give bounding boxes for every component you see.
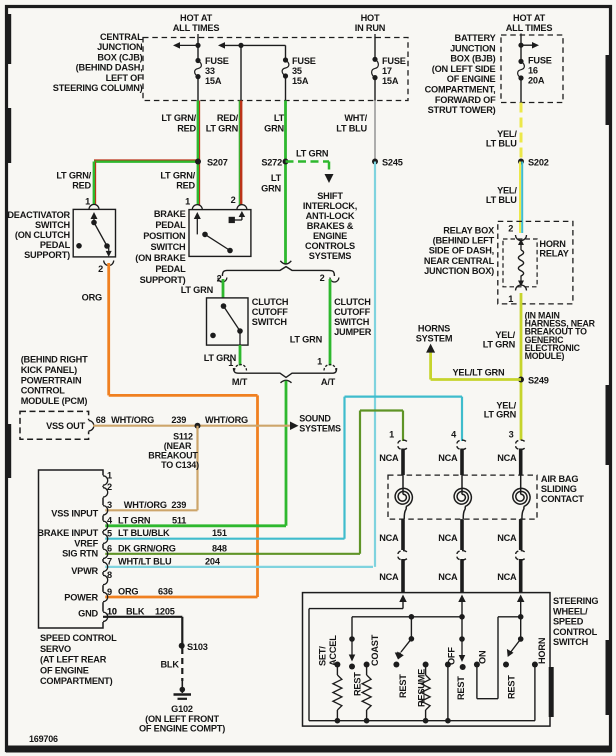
svg-text:RED: RED bbox=[176, 181, 195, 191]
svg-text:MODULE): MODULE) bbox=[525, 351, 565, 361]
svg-text:3: 3 bbox=[107, 500, 112, 510]
svg-text:SIDE OF DASH,: SIDE OF DASH, bbox=[429, 246, 494, 256]
svg-text:BATTERY: BATTERY bbox=[455, 33, 496, 43]
svg-text:2: 2 bbox=[320, 273, 325, 283]
svg-text:(ON LEFT SIDE: (ON LEFT SIDE bbox=[432, 64, 496, 74]
svg-text:STEERING COLUMN): STEERING COLUMN) bbox=[53, 83, 143, 93]
svg-text:NCA: NCA bbox=[438, 533, 458, 543]
svg-text:7: 7 bbox=[107, 557, 112, 567]
svg-text:LEFT OF: LEFT OF bbox=[106, 73, 143, 83]
svg-text:AIR BAG: AIR BAG bbox=[541, 474, 578, 484]
svg-text:17: 17 bbox=[382, 66, 392, 76]
svg-text:A/T: A/T bbox=[321, 377, 336, 387]
svg-text:2: 2 bbox=[508, 224, 513, 234]
svg-text:POSITION: POSITION bbox=[143, 231, 186, 241]
svg-text:WHT/ORG: WHT/ORG bbox=[111, 415, 154, 425]
svg-text:LT GRN/: LT GRN/ bbox=[161, 113, 196, 123]
svg-text:HORN: HORN bbox=[539, 239, 566, 249]
svg-text:16: 16 bbox=[528, 66, 538, 76]
svg-text:BOX (BJB): BOX (BJB) bbox=[450, 54, 495, 64]
svg-text:(AT LEFT REAR: (AT LEFT REAR bbox=[40, 655, 107, 665]
svg-text:(BEHIND DASH,: (BEHIND DASH, bbox=[76, 63, 143, 73]
svg-text:BRAKE: BRAKE bbox=[154, 209, 186, 219]
svg-text:CONTROLS: CONTROLS bbox=[305, 241, 355, 251]
svg-text:RELAY: RELAY bbox=[539, 249, 568, 259]
svg-text:FUSE: FUSE bbox=[205, 56, 229, 66]
svg-text:HOT: HOT bbox=[361, 13, 380, 23]
svg-text:GND: GND bbox=[78, 609, 98, 619]
svg-text:JUNCTION BOX): JUNCTION BOX) bbox=[424, 266, 494, 276]
svg-text:2: 2 bbox=[107, 482, 112, 492]
svg-text:(NEAR: (NEAR bbox=[164, 441, 192, 451]
svg-text:NCA: NCA bbox=[379, 453, 399, 463]
svg-text:15A: 15A bbox=[382, 76, 399, 86]
svg-text:SWITCH: SWITCH bbox=[150, 242, 186, 252]
svg-text:33: 33 bbox=[205, 66, 215, 76]
svg-text:10: 10 bbox=[107, 606, 117, 616]
svg-text:OF ENGINE COMPT): OF ENGINE COMPT) bbox=[139, 724, 225, 734]
svg-text:2: 2 bbox=[231, 195, 236, 205]
svg-text:LT GRN/: LT GRN/ bbox=[160, 171, 195, 181]
svg-text:REST: REST bbox=[352, 672, 362, 696]
svg-text:OF ENGINE: OF ENGINE bbox=[40, 665, 89, 675]
svg-text:CUTOFF: CUTOFF bbox=[252, 307, 288, 317]
svg-text:S103: S103 bbox=[187, 642, 208, 652]
svg-text:CENTRAL: CENTRAL bbox=[100, 32, 143, 42]
svg-text:BOX (CJB): BOX (CJB) bbox=[97, 52, 142, 62]
svg-text:RED: RED bbox=[72, 181, 91, 191]
svg-text:YEL/: YEL/ bbox=[497, 129, 517, 139]
svg-text:JUNCTION: JUNCTION bbox=[450, 43, 496, 53]
svg-text:CONTROL: CONTROL bbox=[553, 627, 598, 637]
svg-text:ALL TIMES: ALL TIMES bbox=[506, 23, 553, 33]
svg-text:SET/: SET/ bbox=[317, 646, 327, 666]
svg-text:848: 848 bbox=[212, 543, 227, 553]
svg-text:WHT/ORG: WHT/ORG bbox=[205, 415, 248, 425]
svg-text:DK GRN/ORG: DK GRN/ORG bbox=[118, 543, 176, 553]
svg-text:SWITCH: SWITCH bbox=[35, 220, 71, 230]
svg-text:SIG RTN: SIG RTN bbox=[62, 549, 98, 559]
svg-text:1: 1 bbox=[185, 197, 190, 207]
svg-text:LT GRN: LT GRN bbox=[483, 340, 516, 350]
svg-text:LT GRN: LT GRN bbox=[290, 335, 323, 345]
svg-text:DEACTIVATOR: DEACTIVATOR bbox=[7, 210, 70, 220]
svg-text:SWITCH: SWITCH bbox=[334, 317, 370, 327]
svg-text:S245: S245 bbox=[382, 158, 403, 168]
svg-text:239: 239 bbox=[171, 500, 186, 510]
svg-text:S249: S249 bbox=[528, 376, 549, 386]
svg-text:M/T: M/T bbox=[232, 377, 248, 387]
svg-text:SYSTEMS: SYSTEMS bbox=[299, 424, 341, 434]
svg-text:LT GRN: LT GRN bbox=[181, 285, 214, 295]
svg-text:POWER: POWER bbox=[64, 593, 98, 603]
svg-text:FUSE: FUSE bbox=[382, 56, 406, 66]
svg-text:YEL/LT GRN: YEL/LT GRN bbox=[453, 368, 505, 378]
svg-text:RED: RED bbox=[177, 124, 196, 134]
svg-text:(ON LEFT FRONT: (ON LEFT FRONT bbox=[145, 714, 219, 724]
svg-text:NCA: NCA bbox=[379, 533, 399, 543]
svg-text:NCA: NCA bbox=[497, 533, 517, 543]
svg-text:YEL/: YEL/ bbox=[497, 186, 517, 196]
svg-text:CUTOFF: CUTOFF bbox=[334, 307, 370, 317]
svg-text:(ON CLUTCH: (ON CLUTCH bbox=[15, 230, 71, 240]
svg-text:WHT/LT BLU: WHT/LT BLU bbox=[118, 556, 172, 566]
svg-text:20A: 20A bbox=[528, 76, 545, 86]
svg-text:YEL/: YEL/ bbox=[495, 330, 515, 340]
svg-text:IN RUN: IN RUN bbox=[355, 23, 386, 33]
svg-text:SWITCH: SWITCH bbox=[252, 317, 288, 327]
svg-text:636: 636 bbox=[158, 587, 173, 597]
svg-text:HOT AT: HOT AT bbox=[180, 13, 213, 23]
svg-text:9: 9 bbox=[107, 587, 112, 597]
svg-text:ORG: ORG bbox=[82, 293, 102, 303]
svg-text:FUSE: FUSE bbox=[528, 56, 552, 66]
svg-text:VREF: VREF bbox=[74, 539, 98, 549]
svg-text:BREAKOUT: BREAKOUT bbox=[148, 450, 198, 460]
svg-text:HORN: HORN bbox=[537, 637, 547, 664]
svg-text:RELAY BOX: RELAY BOX bbox=[443, 226, 495, 236]
svg-text:1: 1 bbox=[107, 470, 112, 480]
svg-text:NCA: NCA bbox=[379, 572, 399, 582]
svg-text:ACCEL: ACCEL bbox=[328, 635, 338, 666]
svg-text:5: 5 bbox=[107, 529, 112, 539]
svg-text:CONTROL: CONTROL bbox=[21, 386, 66, 396]
svg-text:STEERING: STEERING bbox=[553, 596, 598, 606]
svg-text:BRAKE INPUT: BRAKE INPUT bbox=[37, 528, 98, 538]
svg-text:GRN: GRN bbox=[261, 184, 281, 194]
svg-text:JUNCTION: JUNCTION bbox=[97, 42, 143, 52]
svg-text:S272: S272 bbox=[261, 158, 282, 168]
svg-text:VPWR: VPWR bbox=[71, 566, 98, 576]
svg-text:204: 204 bbox=[205, 556, 221, 566]
svg-text:ON: ON bbox=[477, 650, 487, 664]
svg-text:STRUT TOWER): STRUT TOWER) bbox=[428, 105, 496, 115]
svg-text:239: 239 bbox=[171, 415, 186, 425]
svg-text:511: 511 bbox=[172, 515, 186, 525]
svg-text:1: 1 bbox=[317, 357, 322, 367]
svg-text:2: 2 bbox=[217, 274, 222, 284]
svg-text:LT BLU: LT BLU bbox=[486, 139, 517, 149]
svg-text:LT GRN: LT GRN bbox=[296, 149, 329, 159]
svg-text:HOT AT: HOT AT bbox=[513, 13, 546, 23]
svg-text:G102: G102 bbox=[171, 704, 193, 714]
svg-text:NCA: NCA bbox=[438, 572, 458, 582]
svg-text:REST: REST bbox=[456, 676, 466, 700]
svg-text:SYSTEM: SYSTEM bbox=[416, 334, 453, 344]
svg-text:(BEHIND RIGHT: (BEHIND RIGHT bbox=[21, 355, 88, 365]
svg-text:68: 68 bbox=[96, 415, 106, 425]
svg-text:CONTACT: CONTACT bbox=[541, 494, 584, 504]
svg-text:LT GRN: LT GRN bbox=[484, 410, 517, 420]
svg-text:1: 1 bbox=[228, 358, 233, 368]
svg-text:SOUND: SOUND bbox=[299, 414, 331, 424]
svg-text:1: 1 bbox=[389, 430, 394, 440]
svg-text:(ON BRAKE: (ON BRAKE bbox=[135, 253, 185, 263]
svg-text:VSS OUT: VSS OUT bbox=[46, 421, 86, 431]
svg-text:KICK PANEL): KICK PANEL) bbox=[21, 365, 77, 375]
svg-text:WHEEL/: WHEEL/ bbox=[553, 606, 588, 616]
svg-text:151: 151 bbox=[212, 528, 227, 538]
svg-text:SHIFT: SHIFT bbox=[317, 191, 343, 201]
svg-text:8: 8 bbox=[107, 570, 112, 580]
svg-text:2: 2 bbox=[98, 264, 103, 274]
svg-text:15A: 15A bbox=[205, 76, 222, 86]
svg-text:WHT/: WHT/ bbox=[344, 113, 367, 123]
svg-text:SYSTEMS: SYSTEMS bbox=[309, 251, 352, 261]
svg-text:CLUTCH: CLUTCH bbox=[252, 297, 289, 307]
svg-text:TO C134): TO C134) bbox=[161, 460, 199, 470]
svg-text:6: 6 bbox=[107, 544, 112, 554]
svg-text:1: 1 bbox=[85, 197, 90, 207]
svg-text:LT GRN: LT GRN bbox=[206, 124, 239, 134]
svg-text:REST: REST bbox=[506, 675, 516, 699]
svg-text:ALL TIMES: ALL TIMES bbox=[173, 23, 220, 33]
svg-text:GRN: GRN bbox=[264, 124, 284, 134]
svg-text:HORNS: HORNS bbox=[418, 324, 450, 334]
svg-text:LT: LT bbox=[274, 113, 285, 123]
svg-text:MODULE (PCM): MODULE (PCM) bbox=[21, 396, 88, 406]
svg-text:PEDAL: PEDAL bbox=[155, 220, 186, 230]
svg-text:LT BLU: LT BLU bbox=[486, 195, 517, 205]
svg-text:(BEHIND LEFT: (BEHIND LEFT bbox=[433, 236, 495, 246]
svg-text:SUPPORT): SUPPORT) bbox=[140, 275, 186, 285]
svg-text:SPEED CONTROL: SPEED CONTROL bbox=[40, 633, 117, 643]
svg-text:35: 35 bbox=[292, 66, 302, 76]
svg-text:INTERLOCK,: INTERLOCK, bbox=[303, 201, 357, 211]
svg-text:WHT/ORG: WHT/ORG bbox=[124, 500, 167, 510]
svg-text:COAST: COAST bbox=[370, 634, 380, 666]
svg-text:RED/: RED/ bbox=[217, 113, 239, 123]
svg-text:S112: S112 bbox=[173, 431, 193, 441]
svg-text:COMPARTMENT): COMPARTMENT) bbox=[40, 676, 113, 686]
svg-text:LT GRN: LT GRN bbox=[118, 515, 151, 525]
svg-text:SERVO: SERVO bbox=[40, 644, 71, 654]
svg-text:ANTI-LOCK: ANTI-LOCK bbox=[306, 211, 355, 221]
svg-text:LT: LT bbox=[271, 173, 282, 183]
svg-text:1205: 1205 bbox=[155, 606, 175, 616]
svg-text:LT GRN/: LT GRN/ bbox=[56, 171, 91, 181]
svg-text:BLK: BLK bbox=[161, 660, 180, 670]
svg-text:3: 3 bbox=[509, 430, 514, 440]
svg-text:15A: 15A bbox=[292, 76, 309, 86]
svg-text:OFF: OFF bbox=[446, 647, 456, 665]
svg-text:NCA: NCA bbox=[497, 572, 517, 582]
svg-text:REST: REST bbox=[398, 674, 408, 698]
svg-text:FORWARD OF: FORWARD OF bbox=[435, 95, 496, 105]
svg-text:ENGINE: ENGINE bbox=[313, 231, 347, 241]
svg-text:SWITCH: SWITCH bbox=[553, 637, 589, 647]
svg-text:NCA: NCA bbox=[497, 453, 517, 463]
svg-text:1: 1 bbox=[508, 294, 513, 304]
svg-text:LT BLU/BLK: LT BLU/BLK bbox=[118, 528, 170, 538]
svg-text:BLK: BLK bbox=[126, 606, 145, 616]
svg-text:S202: S202 bbox=[528, 158, 549, 168]
svg-text:VSS INPUT: VSS INPUT bbox=[51, 509, 98, 519]
svg-text:SUPPORT): SUPPORT) bbox=[24, 250, 70, 260]
svg-text:CLUTCH: CLUTCH bbox=[334, 297, 371, 307]
svg-text:OF ENGINE: OF ENGINE bbox=[447, 74, 496, 84]
svg-text:PEDAL: PEDAL bbox=[155, 264, 186, 274]
svg-text:FUSE: FUSE bbox=[292, 56, 316, 66]
svg-text:BRAKES &: BRAKES & bbox=[307, 221, 354, 231]
svg-text:COMPARTMENT,: COMPARTMENT, bbox=[425, 85, 496, 95]
svg-text:JUMPER: JUMPER bbox=[334, 327, 372, 337]
svg-text:NCA: NCA bbox=[438, 453, 458, 463]
svg-text:SLIDING: SLIDING bbox=[541, 484, 577, 494]
svg-text:PEDAL: PEDAL bbox=[40, 240, 71, 250]
svg-text:169706: 169706 bbox=[29, 734, 58, 744]
svg-text:SPEED: SPEED bbox=[553, 617, 584, 627]
svg-text:LT BLU: LT BLU bbox=[336, 124, 367, 134]
svg-text:S207: S207 bbox=[207, 158, 228, 168]
svg-text:ORG: ORG bbox=[118, 587, 138, 597]
svg-text:NEAR CENTRAL: NEAR CENTRAL bbox=[424, 256, 495, 266]
svg-text:RESUME: RESUME bbox=[416, 669, 426, 707]
svg-text:POWERTRAIN: POWERTRAIN bbox=[21, 375, 82, 385]
